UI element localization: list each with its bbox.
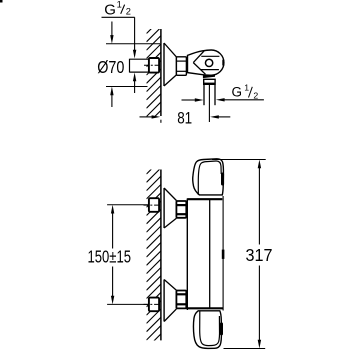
nut centerline (dash-dot) xyxy=(144,64,161,66)
outlet flange (filled) xyxy=(203,74,215,78)
G1/2 right label leader arrow xyxy=(216,98,225,101)
arrow to pipe left edge xyxy=(182,99,196,101)
upper nut centerline xyxy=(144,204,161,206)
top knob (plan) outer xyxy=(193,159,224,195)
pipe centerline xyxy=(208,85,210,122)
svg-text:G: G xyxy=(104,1,116,18)
upper ribbed union nut (plan) xyxy=(176,201,186,218)
dia70 lower extension line xyxy=(106,86,148,88)
svg-text:81: 81 xyxy=(177,109,192,127)
svg-text:G: G xyxy=(232,85,243,100)
G1/2 underline xyxy=(102,16,135,18)
lower nut centerline xyxy=(144,303,161,305)
wall line (bottom view) xyxy=(160,170,162,341)
cartridge teardrop xyxy=(193,51,204,63)
wall hatching (top view) xyxy=(147,19,161,133)
screw circle xyxy=(205,59,212,66)
opposing arrow up to pipe bottom xyxy=(134,81,136,94)
svg-text:1: 1 xyxy=(244,83,249,93)
body right dark segment xyxy=(222,250,225,259)
body chords xyxy=(201,55,219,57)
cap nub (right, filled) xyxy=(222,59,224,66)
dia70 upper arrow xyxy=(111,22,113,36)
lower ribbed union nut (plan) xyxy=(176,291,186,309)
dia70 upper extension line xyxy=(106,43,160,45)
dim 150+-15 extension lines xyxy=(107,204,149,206)
bottom knob dark nub xyxy=(220,322,223,335)
svg-text:2: 2 xyxy=(253,90,258,100)
top knob dark nub xyxy=(221,173,224,186)
dim 81 right arrow xyxy=(210,115,219,118)
G1/2 top label text xyxy=(104,0,131,18)
dim 150+-15 line + arrows xyxy=(111,205,114,214)
dia70 lower arrow xyxy=(111,95,113,107)
dim 317 extension lines xyxy=(212,159,266,161)
upper wall nut (plan) xyxy=(149,198,159,212)
valve body outline xyxy=(188,50,224,75)
svg-text:Ø70: Ø70 xyxy=(97,57,124,77)
wall hatching (bottom view) xyxy=(147,160,161,357)
wall line (top view) xyxy=(160,29,162,116)
G1/2 fraction slash xyxy=(121,5,125,14)
top knob inner line xyxy=(198,161,221,195)
shower pipe xyxy=(203,85,205,105)
bottom knob inner line xyxy=(200,311,220,346)
bottom knob (plan) outer xyxy=(194,311,222,349)
supply nipple (behind wall) xyxy=(130,58,149,60)
corner artifact xyxy=(0,0,3,3)
svg-text:2: 2 xyxy=(126,7,131,17)
lower wall nut (plan) xyxy=(149,298,159,312)
escutcheon (top view) xyxy=(163,43,165,86)
svg-text:317: 317 xyxy=(246,245,273,265)
svg-text:150±15: 150±15 xyxy=(88,247,132,267)
ribbed hex nut (top view) xyxy=(176,57,186,76)
wall extension tick for 81 dim xyxy=(160,120,162,123)
mixer body (plan) xyxy=(186,199,188,311)
lower escutcheon (plan) xyxy=(163,280,165,322)
G1/2 right label text xyxy=(232,83,259,101)
outlet union nut xyxy=(204,79,215,84)
upper escutcheon (plan) xyxy=(163,188,165,228)
svg-text:1: 1 xyxy=(117,0,122,9)
G1/2 leader arrow down to pipe top xyxy=(134,17,136,50)
dim 81 left arrow xyxy=(140,116,154,118)
union nut behind wall (top view) xyxy=(149,58,159,73)
dim 317 line + arrows xyxy=(258,160,261,169)
